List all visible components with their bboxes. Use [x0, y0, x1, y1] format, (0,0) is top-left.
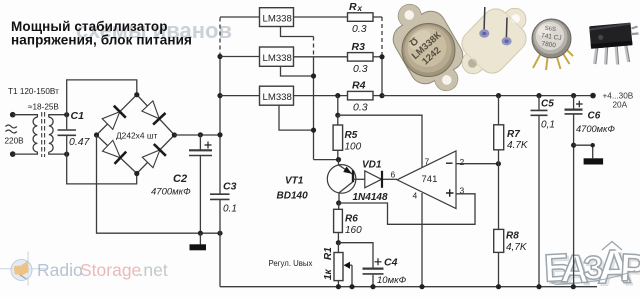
node R6 bottom — [336, 240, 341, 245]
ground symbol stub — [199, 233, 201, 244]
node R5 bottom — [336, 157, 341, 162]
diode D3 lower-left — [103, 140, 127, 164]
logo BAZAR shadow — [545, 243, 640, 297]
photo DIP-8 IC — [589, 23, 638, 65]
svg-text:C2: C2 — [173, 173, 187, 185]
bottom rail — [220, 286, 597, 288]
transformer T1 secondary winding — [49, 117, 53, 152]
node rail C6 — [571, 93, 576, 98]
svg-text:1к: 1к — [323, 268, 334, 280]
svg-text:0.3: 0.3 — [352, 23, 367, 35]
node bus row2 — [217, 54, 222, 59]
svg-text:220В: 220В — [5, 137, 25, 146]
svg-text:20А: 20А — [613, 101, 628, 110]
svg-text:0,1: 0,1 — [541, 120, 555, 131]
wire R5 top — [337, 115, 339, 125]
svg-text:LM338: LM338 — [263, 14, 292, 25]
wire R6 bottom — [337, 233, 339, 243]
node adj row2 — [311, 73, 316, 78]
photo op-amp 741 metal can — [532, 19, 573, 70]
svg-text:0.47: 0.47 — [69, 136, 91, 148]
wire adj bus dashed segment — [313, 37, 315, 57]
ground symbol right — [584, 158, 604, 164]
node VT1 emitter-bottom — [336, 200, 341, 205]
node pin2 divider — [496, 161, 501, 166]
label AC symbol — [6, 125, 17, 133]
svg-text:C6: C6 — [588, 111, 601, 122]
regulator U2 LM338 — [260, 47, 294, 66]
bridge diamond wires — [97, 95, 175, 174]
svg-text:R5: R5 — [345, 130, 358, 141]
svg-text:1N4148: 1N4148 — [353, 192, 388, 203]
capacitor C4 — [363, 268, 384, 270]
wire U1 out — [294, 16, 348, 18]
svg-text:0.3: 0.3 — [353, 102, 368, 114]
potentiometer R1 wiper — [346, 264, 352, 266]
transistor VT1 circle — [327, 165, 356, 194]
label opamp plus — [446, 189, 454, 196]
label C6 plus — [576, 101, 583, 108]
node C2 bottom — [198, 231, 203, 236]
node R4 out — [379, 93, 384, 98]
wire right junction vertical — [381, 57, 383, 96]
wire U2 out — [294, 56, 348, 58]
node rail R7 — [496, 93, 501, 98]
svg-text:.net: .net — [139, 260, 168, 280]
resistor Rx — [348, 13, 374, 21]
wire left bus solid — [219, 57, 221, 135]
wire right dashed — [381, 17, 383, 57]
node bridge right — [172, 132, 177, 137]
wire R4 out — [373, 95, 382, 97]
svg-text:R8: R8 — [506, 231, 519, 242]
label opamp minus — [446, 162, 453, 164]
resistor R7 — [494, 125, 504, 150]
logo BAZAR letters — [543, 241, 640, 295]
svg-text:R3: R3 — [352, 41, 366, 53]
resistor R6 — [334, 209, 343, 232]
node C1 top — [64, 112, 69, 117]
node C3 bottom — [217, 231, 222, 236]
capacitor C3 — [219, 135, 221, 233]
svg-text:6: 6 — [391, 170, 396, 180]
wire R7 top — [498, 96, 500, 125]
wire U1 adj — [281, 27, 314, 37]
svg-text:Д242х4 шт: Д242х4 шт — [116, 131, 158, 141]
svg-text:х: х — [357, 4, 363, 13]
wire row2 input — [220, 56, 260, 58]
svg-text:Radio: Radio — [37, 260, 83, 280]
wire ground down to bottom rail — [219, 233, 221, 287]
node R1 bottom — [336, 284, 341, 289]
node rail C5 — [536, 93, 541, 98]
node bridge left — [94, 132, 99, 137]
wire VD1 to opamp — [383, 178, 397, 180]
node input terminal bottom — [10, 151, 16, 157]
wire R1 wiper down — [351, 265, 353, 287]
node ground branch corner — [591, 143, 595, 147]
capacitor C5 — [538, 96, 540, 287]
wire bridge right to bus — [174, 134, 220, 136]
svg-text:4,7K: 4,7K — [506, 242, 528, 253]
transistor VT1 base bar — [352, 170, 354, 182]
node bridge top — [134, 92, 139, 97]
wire R5 bottom — [337, 150, 339, 159]
potentiometer R1 body — [334, 253, 343, 281]
node C5 ground — [536, 284, 541, 289]
regulator U1 LM338 — [260, 8, 294, 27]
wire left bus dashed — [219, 17, 221, 57]
wire U2 adj — [281, 66, 314, 76]
wire R6 top — [338, 203, 340, 209]
wire secondary bottom — [49, 152, 67, 154]
node R8 ground — [496, 284, 501, 289]
wire VT1 base to VD1 — [353, 178, 365, 180]
transistor VT1 emitter lead — [339, 160, 354, 175]
capacitor C1 — [66, 115, 68, 154]
diode D4 lower-right — [142, 144, 166, 168]
wire R7 to R8 — [498, 150, 500, 230]
svg-text:4.7K: 4.7K — [507, 140, 529, 151]
wire R4node down — [337, 96, 339, 116]
resistor R5 — [333, 125, 343, 150]
svg-text:Р: Р — [619, 247, 640, 291]
wire Rx out — [373, 16, 382, 18]
node output terminal — [590, 93, 596, 99]
wire primary top — [13, 115, 38, 118]
svg-text:100: 100 — [345, 142, 362, 153]
wire pin4 down — [421, 193, 423, 287]
node C6 ground tap — [571, 143, 576, 148]
svg-text:4700мкФ: 4700мкФ — [151, 187, 191, 198]
wire output rail — [382, 95, 593, 97]
wire R1 bottom — [337, 281, 339, 287]
svg-text:C5: C5 — [541, 99, 554, 110]
diode D2 upper-right — [142, 101, 166, 125]
svg-text:Регул. Uвых: Регул. Uвых — [269, 259, 313, 268]
svg-text:≈18-25В: ≈18-25В — [28, 103, 59, 112]
svg-text:160: 160 — [345, 225, 362, 236]
resistor R4 — [348, 91, 374, 100]
logo RadioStorage icon speaker — [14, 261, 29, 276]
node R3 out — [379, 54, 384, 59]
logo BAZAR hat — [602, 242, 622, 251]
logo BAZAR swoosh — [551, 271, 635, 285]
svg-text:R: R — [349, 1, 357, 13]
svg-text:Storage: Storage — [80, 260, 141, 280]
wire R1 top — [337, 243, 339, 253]
svg-text:2: 2 — [460, 157, 465, 167]
diode D1 upper-left — [102, 106, 126, 130]
svg-text:C4: C4 — [384, 257, 398, 269]
wire U3 out — [294, 95, 348, 97]
photo TO-3 transistor back — [448, 0, 541, 88]
svg-text:7: 7 — [425, 157, 430, 167]
wire secondary top — [49, 115, 67, 118]
wire pin7 rail — [338, 115, 422, 167]
logo RadioStorage icon circle — [11, 260, 32, 281]
ground symbol — [190, 244, 207, 250]
label C4 plus — [375, 258, 382, 265]
node pin4 ground — [419, 284, 424, 289]
svg-text:4: 4 — [413, 191, 418, 201]
wire adj bus vertical — [313, 57, 315, 160]
photo TO-3 transistor LM338K front — [380, 0, 476, 103]
svg-text:LM338: LM338 — [263, 92, 292, 103]
svg-text:R1: R1 — [323, 247, 334, 260]
svg-text:напряжения, блок питания: напряжения, блок питания — [11, 33, 192, 48]
wire R6node to C4 — [338, 243, 373, 268]
wire R8 bottom — [498, 252, 500, 286]
op-amp U4 741 triangle — [397, 151, 456, 209]
svg-text:LM338: LM338 — [263, 53, 292, 64]
node C2 top — [198, 132, 203, 137]
wire row1 input — [220, 16, 260, 18]
label C2 plus — [205, 142, 212, 149]
svg-text:4700мкФ: 4700мкФ — [576, 124, 615, 134]
node C6 ground — [571, 284, 576, 289]
svg-text:R4: R4 — [352, 80, 366, 92]
resistor R8 — [494, 229, 504, 252]
wire pin3 routing — [339, 194, 475, 225]
node input terminal top — [10, 112, 16, 118]
capacitor C6 — [573, 96, 575, 287]
node R4 left — [335, 93, 340, 98]
wire C1 top to bridge top — [67, 80, 137, 115]
svg-text:C1: C1 — [71, 110, 85, 122]
svg-text:0.1: 0.1 — [223, 204, 237, 215]
svg-text:10мкФ: 10мкФ — [377, 275, 407, 286]
svg-text:R7: R7 — [507, 129, 520, 140]
transistor VT1 emitter arrow — [344, 167, 351, 173]
wire pin2 — [456, 163, 498, 165]
transformer core — [41, 112, 43, 157]
wire ground left vertical — [97, 135, 221, 233]
svg-text:BD140: BD140 — [277, 191, 309, 202]
svg-text:C3: C3 — [223, 181, 237, 193]
capacitor C2 — [199, 135, 201, 233]
svg-text:741: 741 — [422, 174, 438, 185]
node C4 bottom — [370, 284, 375, 289]
resistor R3 — [348, 53, 374, 62]
wire adj to R5 node — [314, 159, 339, 161]
node bridge bottom — [134, 171, 139, 176]
svg-text:VT1: VT1 — [285, 176, 304, 187]
wire U3 adj — [279, 105, 314, 130]
transformer T1 primary winding — [33, 117, 37, 152]
svg-text:0.3: 0.3 — [353, 63, 368, 75]
node pin7 rail — [335, 113, 340, 118]
node adj row3 — [311, 128, 316, 133]
node C1 bottom — [64, 152, 69, 157]
wire C1 bottom to bridge bottom — [67, 154, 137, 184]
node bus main — [217, 132, 222, 137]
transistor VT1 collector lead — [339, 182, 353, 203]
wire R3 out — [373, 56, 382, 58]
wire C6 ground branch — [574, 145, 593, 158]
diode VD1 — [365, 171, 382, 188]
node bus row3 — [217, 93, 222, 98]
wire row3 input — [220, 95, 260, 97]
svg-text:VD1: VD1 — [362, 160, 382, 171]
logo RadioStorage crosshair — [0, 252, 47, 286]
svg-text:R6: R6 — [345, 214, 358, 225]
svg-text:Т1 120-150Вт: Т1 120-150Вт — [8, 87, 59, 96]
wire primary bottom — [13, 152, 38, 154]
node wiper ground — [349, 284, 354, 289]
svg-text:+4...30В: +4...30В — [603, 92, 634, 101]
regulator U3 LM338 — [260, 86, 294, 105]
